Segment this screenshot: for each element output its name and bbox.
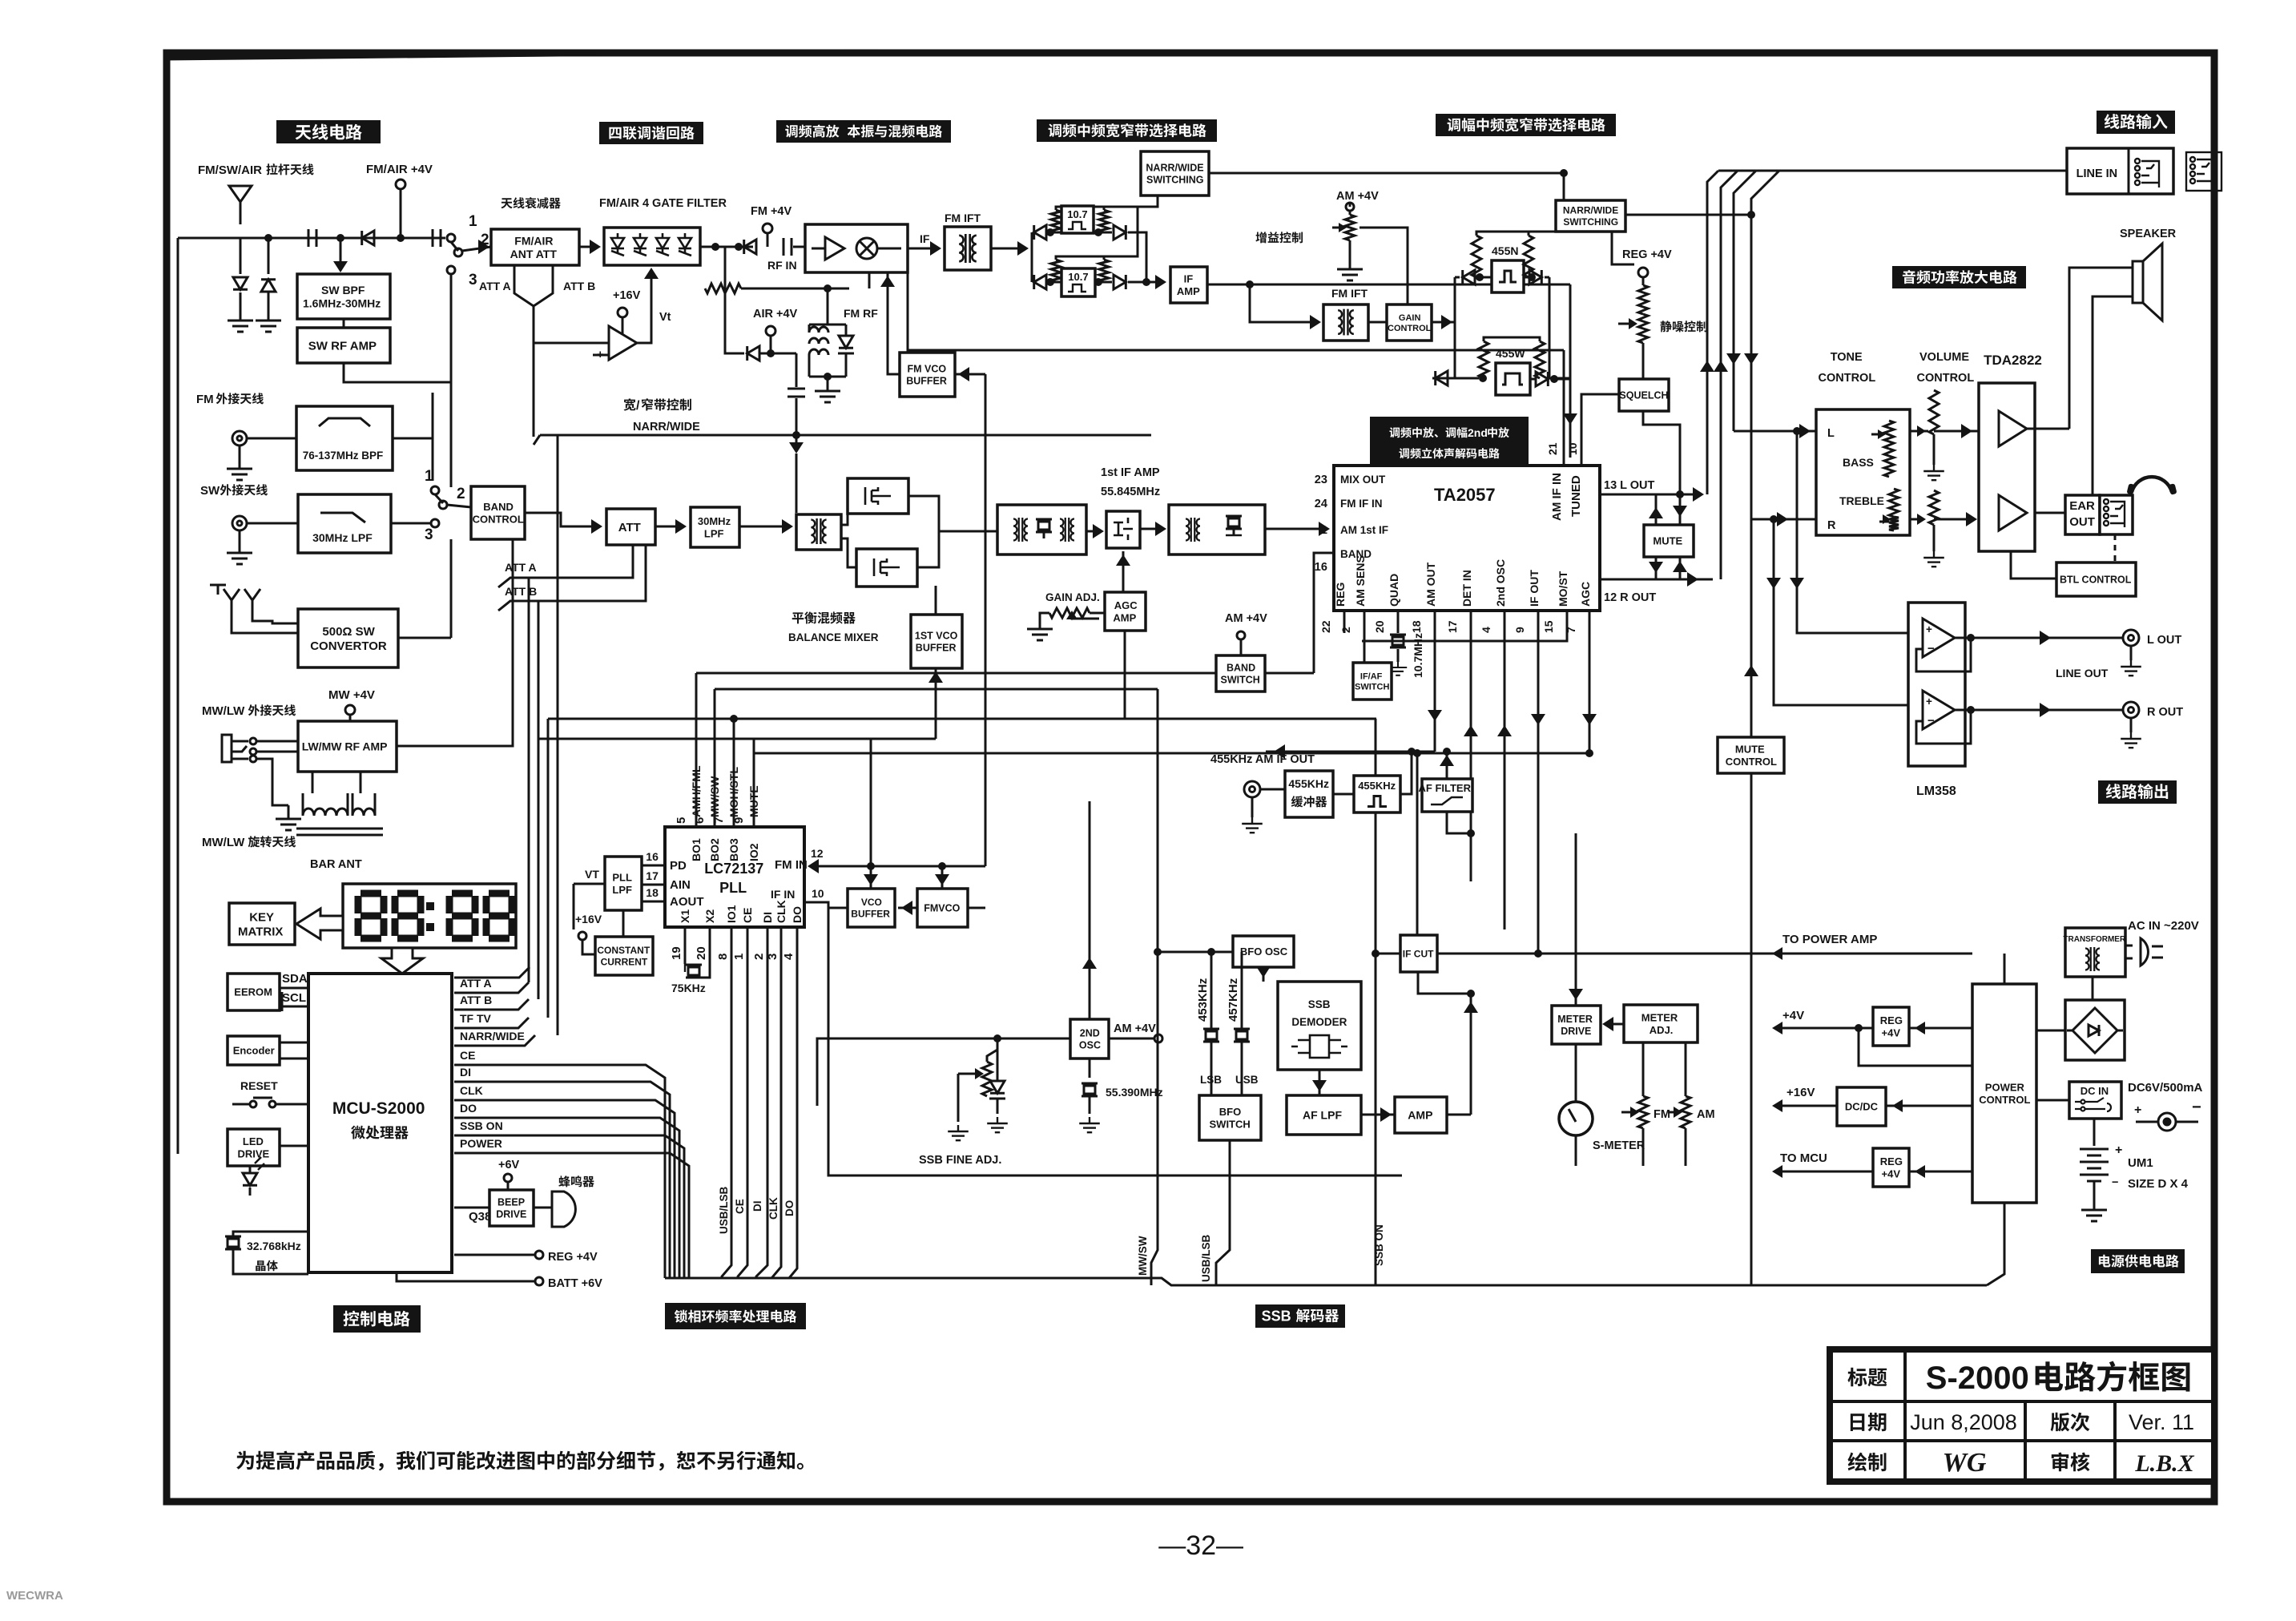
svg-text:55.390MHz: 55.390MHz (1106, 1086, 1163, 1099)
wire aflpf right (1361, 1114, 1395, 1116)
wire 10.7b row (1047, 281, 1061, 284)
wire band control out (525, 513, 599, 526)
svg-text:ANT ATT: ANT ATT (510, 248, 558, 260)
svg-text:453KHz: 453KHz (1196, 978, 1210, 1022)
wire POWER long (454, 1153, 689, 1278)
wire lpf-mixtrans (739, 526, 790, 528)
svg-text:LSB: LSB (1200, 1074, 1222, 1086)
box mixer input transformer (796, 514, 841, 550)
wire R to tone (1751, 518, 1816, 521)
svg-text:SSB ON: SSB ON (460, 1119, 503, 1132)
box LINE IN (2067, 148, 2173, 194)
svg-text:SW BPF: SW BPF (321, 284, 365, 296)
svg-text:AIR +4V: AIR +4V (753, 308, 798, 321)
+16V label (613, 289, 641, 302)
wire bfo osc down (1263, 967, 1265, 982)
box EAR OUT (2065, 495, 2100, 534)
label MW/LW旋转天线 (202, 836, 296, 849)
wire affilter top (1446, 752, 1448, 779)
wire pin15 MO/ST down (1362, 611, 1567, 641)
wire vt to filter (637, 271, 651, 343)
pot treble (1889, 489, 1899, 517)
svg-text:REG: REG (1880, 1155, 1903, 1167)
wire mute down b (1679, 557, 1682, 579)
box PLL LPF (605, 857, 642, 910)
wire bfo osc left (1158, 952, 1233, 982)
wire lm in L (1796, 431, 1799, 594)
footnote text (236, 1451, 804, 1471)
svg-text:18: 18 (1410, 620, 1423, 633)
wire nw1 down left (1104, 196, 1158, 207)
svg-text:REG: REG (1334, 583, 1347, 607)
wire att drop (533, 306, 535, 437)
label 线路输出 (2098, 780, 2177, 804)
svg-text:OSC: OSC (1079, 1039, 1101, 1050)
wire pin10 up to squelch (1581, 394, 1619, 466)
svg-text:−: − (1927, 642, 1935, 655)
dc plug icon (2136, 1113, 2198, 1131)
label +6V (498, 1159, 520, 1171)
svg-text:AC IN ~220V: AC IN ~220V (2128, 919, 2199, 933)
page frame border (167, 53, 2214, 1502)
svg-text:REG +4V: REG +4V (1622, 248, 1672, 261)
wire reg2 right (1909, 1171, 1972, 1173)
riser NARR/WIDE (557, 435, 559, 1035)
box Encoder (228, 1036, 280, 1065)
svg-text:DRIVE: DRIVE (238, 1147, 270, 1159)
svg-text:FM +4V: FM +4V (751, 205, 792, 218)
svg-text:IF IN: IF IN (771, 888, 795, 901)
svg-text:IO2: IO2 (747, 843, 760, 861)
svg-text:+16V: +16V (613, 289, 641, 302)
svg-text:POWER: POWER (1985, 1082, 2025, 1094)
svg-text:IO1: IO1 (725, 905, 738, 923)
label 宽窄带控制 (623, 398, 691, 413)
label 锁相环频率处理电路 (665, 1303, 806, 1329)
box FM/AIR 4 GATE FILTER (604, 228, 700, 265)
svg-text:AM +4V: AM +4V (1336, 190, 1379, 203)
ground pot gain (1349, 240, 1351, 261)
bus y860 mwsw (715, 688, 1158, 691)
box 2ND OSC (1070, 1019, 1109, 1058)
svg-text:1st IF AMP: 1st IF AMP (1101, 466, 1160, 479)
svg-text:MUTE: MUTE (1735, 744, 1765, 756)
wire encoder (280, 1042, 308, 1044)
svg-text:ATT B: ATT B (505, 585, 537, 598)
label TONE CONTROL (1831, 351, 1863, 364)
diode fm in (744, 240, 756, 254)
svg-text:12 R OUT: 12 R OUT (1604, 591, 1656, 604)
bus y897 (548, 718, 1376, 720)
svg-text:FMVCO: FMVCO (924, 903, 960, 914)
wire pot-agc (1090, 612, 1105, 615)
ground ant2 (256, 313, 281, 332)
svg-text:SSB FINE ADJ.: SSB FINE ADJ. (919, 1154, 1001, 1167)
label AC IN 220V (2128, 919, 2199, 933)
svg-text:CURRENT: CURRENT (601, 956, 648, 967)
box SW RF AMP (297, 328, 390, 363)
svg-text:MIX OUT: MIX OUT (1340, 474, 1386, 486)
svg-text:+4V: +4V (1882, 1026, 1901, 1038)
wire 16 BAND (1314, 553, 1334, 673)
svg-text:DI: DI (460, 1066, 471, 1079)
svg-text:QUAD: QUAD (1388, 574, 1400, 607)
svg-text:AM +4V: AM +4V (1114, 1022, 1156, 1035)
svg-text:CLK: CLK (460, 1084, 483, 1097)
label Q38 (469, 1210, 491, 1224)
455 chain left vert (1454, 277, 1456, 378)
wire 2ndosc up (1089, 801, 1091, 1019)
diode 10.7 a (1034, 225, 1046, 240)
svg-text:NARR/WIDE: NARR/WIDE (633, 421, 700, 433)
terminal FM/AIR+4V (396, 179, 405, 189)
wire vco buffer to mixer (887, 272, 889, 353)
svg-text:1: 1 (469, 213, 477, 230)
svg-text:SWITCHING: SWITCHING (1563, 216, 1618, 228)
svg-text:IF: IF (920, 232, 930, 245)
label 457KHz (1227, 978, 1240, 1022)
label 静噪控制 (1660, 321, 1707, 332)
label 55.390MHz (1106, 1086, 1163, 1099)
svg-text:DO: DO (791, 906, 804, 923)
wire antenna row (240, 237, 445, 240)
LED symbol (249, 1166, 252, 1174)
wire meter drive top (1575, 833, 1577, 1006)
label AM +4V top (1336, 190, 1379, 203)
ground fork (217, 585, 220, 595)
box 1ST VCO BUFFER (911, 615, 962, 668)
svg-text:FM/AIR +4V: FM/AIR +4V (366, 163, 433, 176)
wire REG+4V out (454, 1254, 535, 1256)
wire 455n top to nw2 (1529, 231, 1590, 232)
svg-text:16: 16 (1315, 561, 1327, 574)
wire bpf-amp (343, 319, 345, 328)
ground vol L (1933, 434, 1935, 465)
capacitor C ant2 (433, 229, 441, 247)
svg-text:1: 1 (425, 468, 433, 485)
diode 455n right (1524, 276, 1529, 279)
TA2057 top rotated labels (1550, 473, 1564, 521)
wire led drive (280, 1145, 308, 1147)
arrow display to keymatrix (296, 909, 343, 939)
wire air down arrow (789, 442, 804, 454)
svg-text:FM VCO: FM VCO (908, 364, 947, 375)
row b join wire (1128, 281, 1163, 284)
terminal FM+4V (763, 224, 772, 233)
svg-text:500Ω SW: 500Ω SW (322, 625, 375, 639)
box 10.7 top (1061, 206, 1094, 233)
svg-text:LPF: LPF (612, 884, 632, 896)
label 增益控制 (1255, 232, 1303, 243)
coil tank (809, 327, 828, 355)
label S-METER (1593, 1139, 1645, 1152)
wire 1stvco in (935, 668, 937, 739)
svg-text:R OUT: R OUT (2147, 706, 2183, 719)
svg-text:DO: DO (460, 1102, 477, 1115)
xtal 453 (1210, 982, 1213, 1029)
svg-text:AM SENS: AM SENS (1354, 555, 1367, 607)
wire ift1 out (991, 248, 1025, 250)
label 12 (811, 847, 824, 860)
svg-text:DC6V/500mA: DC6V/500mA (2128, 1081, 2203, 1095)
svg-text:FM/AIR 4 GATE FILTER: FM/AIR 4 GATE FILTER (599, 197, 727, 210)
svg-text:1: 1 (732, 954, 746, 960)
fork antenna 2 (244, 589, 260, 616)
connector R OUT (2123, 702, 2139, 718)
whip antenna (229, 186, 252, 224)
diode 455w left (1432, 377, 1455, 380)
wire L to tone (1734, 430, 1816, 433)
box NARR/WIDE SWITCHING 1 (1141, 151, 1209, 196)
diode air (747, 346, 759, 361)
left vert antenna feed (177, 238, 179, 1154)
label 1st IF AMP (1101, 466, 1160, 479)
svg-text:2: 2 (1339, 627, 1352, 633)
varactor 2nd (997, 1050, 999, 1082)
svg-text:DO: DO (783, 1200, 796, 1216)
label 音频功率放大电路 (1892, 266, 2026, 288)
squiggle 455n l (1472, 236, 1481, 277)
label LM358 (1916, 784, 1956, 798)
svg-text:VT: VT (585, 868, 599, 881)
svg-text:X2: X2 (703, 909, 716, 923)
terminal +16v pll (578, 932, 586, 940)
svg-text:457KHz: 457KHz (1227, 978, 1240, 1022)
svg-text:+: + (1926, 623, 1932, 635)
wire tda1 out (2027, 428, 2069, 430)
wire DI long (454, 1082, 670, 1278)
wire vol L to tda (1934, 430, 1967, 433)
svg-text:32.768kHz: 32.768kHz (247, 1240, 301, 1252)
svg-text:10: 10 (1566, 442, 1579, 455)
box TRANSFORMER (2065, 928, 2125, 977)
svg-text:USB/LSB: USB/LSB (718, 1186, 730, 1234)
svg-text:+: + (2115, 1143, 2122, 1157)
svg-text:AMP: AMP (1408, 1109, 1432, 1122)
svg-text:12: 12 (811, 847, 824, 860)
wire fmvco right (968, 907, 985, 909)
box 30MHz LPF small (691, 507, 739, 547)
wire power to ifcut row (1972, 953, 1974, 955)
wire ift2-gain (1368, 321, 1387, 324)
svg-text:DC IN: DC IN (2080, 1085, 2109, 1097)
svg-text:MUTE: MUTE (1653, 535, 1682, 547)
svg-text:8: 8 (716, 954, 730, 960)
svg-text:SWITCH: SWITCH (1221, 674, 1260, 685)
svg-text:BALANCE MIXER: BALANCE MIXER (788, 631, 879, 643)
svg-text:X1: X1 (679, 909, 691, 923)
label IF IN (771, 888, 795, 901)
wire lm in R (1773, 519, 1775, 594)
label TO POWER AMP (1782, 933, 1877, 946)
svg-text:9: 9 (1513, 627, 1526, 633)
svg-text:1.6MHz-30MHz: 1.6MHz-30MHz (303, 296, 381, 309)
wire air diode left (725, 247, 744, 353)
wire to mcu (1778, 1171, 1873, 1173)
svg-text:BUFFER: BUFFER (851, 908, 890, 919)
svg-text:FM/AIR: FM/AIR (514, 234, 553, 247)
bus y940 (754, 752, 1589, 755)
wire L OUT (1600, 494, 1701, 496)
pin16 label (1315, 561, 1327, 574)
wire affilter bottom (1447, 812, 1471, 833)
box REG+4V 2 (1873, 1148, 1909, 1187)
svg-text:BAND: BAND (1227, 663, 1255, 674)
svg-text:CE: CE (741, 908, 754, 923)
label +4V (1782, 1009, 1804, 1022)
wire to power amp (1778, 953, 1972, 955)
label +16V pll (575, 913, 602, 925)
svg-text:/: / (636, 399, 640, 413)
xtal 55.390 (1089, 1058, 1091, 1078)
label ATT A top (479, 280, 511, 292)
svg-text:SPEAKER: SPEAKER (2120, 228, 2177, 240)
label FM RF (844, 307, 878, 320)
wire tda to btl (2011, 551, 2056, 579)
wire dcin left (2036, 1099, 2069, 1102)
svg-text:METER: METER (1557, 1014, 1593, 1025)
wire gain out (1432, 321, 1455, 324)
wire att-lpf (655, 526, 683, 528)
wire mute down a (1655, 557, 1658, 579)
wire mwsw vert (1151, 689, 1158, 1285)
bar antenna coil (296, 772, 383, 835)
box MUTE CONTROL (1718, 737, 1784, 773)
svg-text:455KHz AM IF OUT: 455KHz AM IF OUT (1210, 753, 1315, 766)
label FM IFT (945, 212, 981, 224)
lm358 opamp1 (1923, 619, 1955, 657)
svg-text:NARR/WIDE: NARR/WIDE (1563, 205, 1618, 216)
wire dcin down battery (2093, 1119, 2096, 1146)
wire buffer-455 (1333, 793, 1354, 796)
svg-text:+4V: +4V (1782, 1009, 1804, 1022)
label RF IN (767, 259, 797, 272)
fork antenna 1 (224, 589, 240, 616)
wire amp up (1470, 994, 1472, 1115)
wire bandswitch right (1265, 672, 1314, 675)
box 10.7 bottom (1061, 268, 1095, 296)
svg-text:1: 1 (1321, 524, 1327, 537)
svg-text:BEEP: BEEP (497, 1197, 525, 1208)
capacitor C ant1 (308, 229, 316, 247)
svg-text:ATT A: ATT A (479, 280, 511, 292)
svg-text:IF: IF (1184, 273, 1194, 285)
squiggle 455w l (1479, 341, 1488, 378)
wire Vt tuned long (908, 272, 1564, 350)
svg-text:MW/LW: MW/LW (202, 836, 245, 849)
terminal reg4v sq (1638, 268, 1648, 277)
label 四联调谐回路 (599, 122, 703, 144)
pll top pins (695, 739, 698, 827)
svg-text:AOUT: AOUT (670, 895, 704, 909)
svg-text:2: 2 (752, 954, 766, 960)
TA2057 bottom rotated labels (1334, 583, 1347, 607)
wire pin4 2ndOSC down (1504, 611, 1506, 929)
svg-text:FM IFT: FM IFT (1331, 287, 1368, 300)
ac plug (2141, 938, 2148, 966)
label 蜂鸣器 (558, 1175, 594, 1187)
box if coupling (1106, 511, 1140, 548)
svg-text:22: 22 (1319, 620, 1332, 633)
arrow display to mcu (381, 948, 423, 974)
svg-text:GAIN ADJ.: GAIN ADJ. (1045, 591, 1100, 603)
svg-text:AM +4V: AM +4V (1225, 612, 1267, 625)
svg-text:2nd: 2nd (1468, 426, 1488, 439)
wire squelch top (1642, 343, 1645, 379)
wire BATT+6V out (397, 1272, 535, 1281)
wire ifcut top (1416, 753, 1419, 935)
svg-text:SWITCH: SWITCH (1355, 683, 1389, 692)
wire vcobuf down (828, 907, 848, 909)
squiggle squelch (1638, 285, 1648, 314)
crystal 75k (684, 927, 687, 964)
squiggle 1057a (1051, 210, 1061, 232)
wire transformer down (2092, 977, 2094, 1000)
svg-text:MO/ST: MO/ST (1557, 571, 1569, 607)
label IF (920, 232, 930, 245)
svg-text:SQUELCH: SQUELCH (1619, 390, 1668, 401)
wire into 455w (1455, 377, 1479, 380)
speaker symbol (2133, 244, 2162, 321)
wire opamp in (534, 342, 609, 345)
wire smeter down (1575, 1135, 1577, 1166)
ground rout (2130, 718, 2133, 732)
label 455KHz AM IF OUT (1210, 753, 1315, 766)
top bar 455w (1484, 337, 1540, 341)
row a to join (1128, 232, 1146, 282)
svg-text:MATRIX: MATRIX (238, 925, 283, 938)
svg-text:AMP: AMP (1177, 285, 1200, 297)
title block (1830, 1349, 2214, 1482)
box IF/AF SWITCH (1353, 663, 1392, 700)
wire pin17 DET IN down (1470, 611, 1472, 881)
svg-text:BO2: BO2 (708, 838, 721, 861)
svg-text:SW RF AMP: SW RF AMP (308, 339, 377, 353)
svg-text:SWITCHING: SWITCHING (1146, 174, 1204, 185)
svg-text:VOLUME: VOLUME (1919, 351, 1969, 364)
wire nw2 right to bus (1625, 214, 1751, 216)
label USB/LSB bot2 (1200, 1234, 1212, 1282)
label LSB (1200, 1074, 1222, 1086)
svg-text:CONTROL: CONTROL (1819, 372, 1876, 385)
wire rout (1971, 709, 2125, 712)
speaker wire 2 (2093, 296, 2133, 513)
svg-text:SW: SW (200, 484, 220, 498)
switch contact 3 (447, 266, 455, 274)
wire nw1 right (1209, 173, 1564, 200)
wire fmin col up (870, 739, 872, 866)
svg-text:20: 20 (1373, 620, 1386, 633)
box 455KHz buffer (1285, 771, 1333, 817)
svg-text:IF CUT: IF CUT (1403, 948, 1434, 959)
svg-text:CONTROL: CONTROL (1917, 372, 1975, 385)
watermark WECWRA (6, 1589, 63, 1603)
box FM IFT2 (1323, 304, 1368, 341)
svg-text:BO1: BO1 (690, 838, 703, 861)
wire sda scl (280, 987, 308, 990)
svg-text:CONTROL: CONTROL (1388, 324, 1432, 333)
box FM IFT1 (945, 227, 991, 270)
wire CLK long (454, 1100, 675, 1278)
svg-text:USB: USB (1235, 1074, 1259, 1086)
svg-text:LINE IN: LINE IN (2076, 167, 2118, 180)
svg-text:10.7MHz: 10.7MHz (1412, 633, 1424, 678)
wire tone R out (1910, 518, 1921, 521)
svg-text:Vt: Vt (659, 311, 671, 324)
box LW/MW RF AMP (298, 721, 397, 772)
svg-text:FM RF: FM RF (844, 307, 878, 320)
box 76-137MHz BPF (296, 406, 393, 470)
